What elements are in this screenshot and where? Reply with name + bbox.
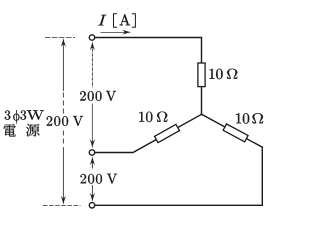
label 3 [5,111,11,120]
label bracket-l [113,13,117,27]
label 10 ohm R2 [139,112,152,122]
resistor R3 10 ohm right arm [223,124,248,142]
kanji GEN source [26,124,39,137]
terminal middle [89,150,94,155]
label A [120,14,131,25]
current arrowhead [122,30,131,35]
label V lower [107,174,117,184]
arrowhead upper span bottom [90,139,95,148]
arrowhead lower span top [90,156,95,165]
label ohm R2 [157,112,167,122]
label 200V upper [80,91,101,101]
label 200V lower [81,174,102,184]
arrowhead upper span top [90,41,95,50]
tick top [45,36,75,38]
label bracket-r [132,13,136,27]
label 10 ohm R3 [236,113,249,123]
wire left arm diagonal to middle terminal [95,114,202,152]
label ohm R1 [227,69,237,79]
label V upper [106,91,116,101]
label V left [73,116,83,126]
arrowhead lower span bottom [90,193,95,202]
label I [98,15,106,26]
dimension line 200V lower middle [91,159,93,199]
label 3b [21,111,27,120]
resistor R2 10 ohm left arm [155,124,180,142]
wire right arm diagonal down and bottom line [95,114,262,205]
arrowhead outer top [61,38,66,47]
label 200V left [47,116,68,126]
wire R1 bottom to star node [201,87,203,115]
label 10 ohm R1 [210,69,223,79]
current arrow for I [101,31,127,33]
arrowhead outer bottom [61,196,66,205]
dimension line outer left 200V [62,41,64,202]
label ohm R3 [252,113,263,123]
terminal bottom [89,203,94,208]
dimension line 200V upper middle [91,44,93,88]
node star point [200,113,202,115]
terminal top [89,35,94,40]
wire top horizontal and down to R1 [95,38,202,64]
kanji DEN electric [3,124,15,137]
resistor R1 10 ohm vertical [198,63,205,87]
label phi [13,110,19,123]
tick bottom [43,204,81,206]
label W [27,110,44,120]
